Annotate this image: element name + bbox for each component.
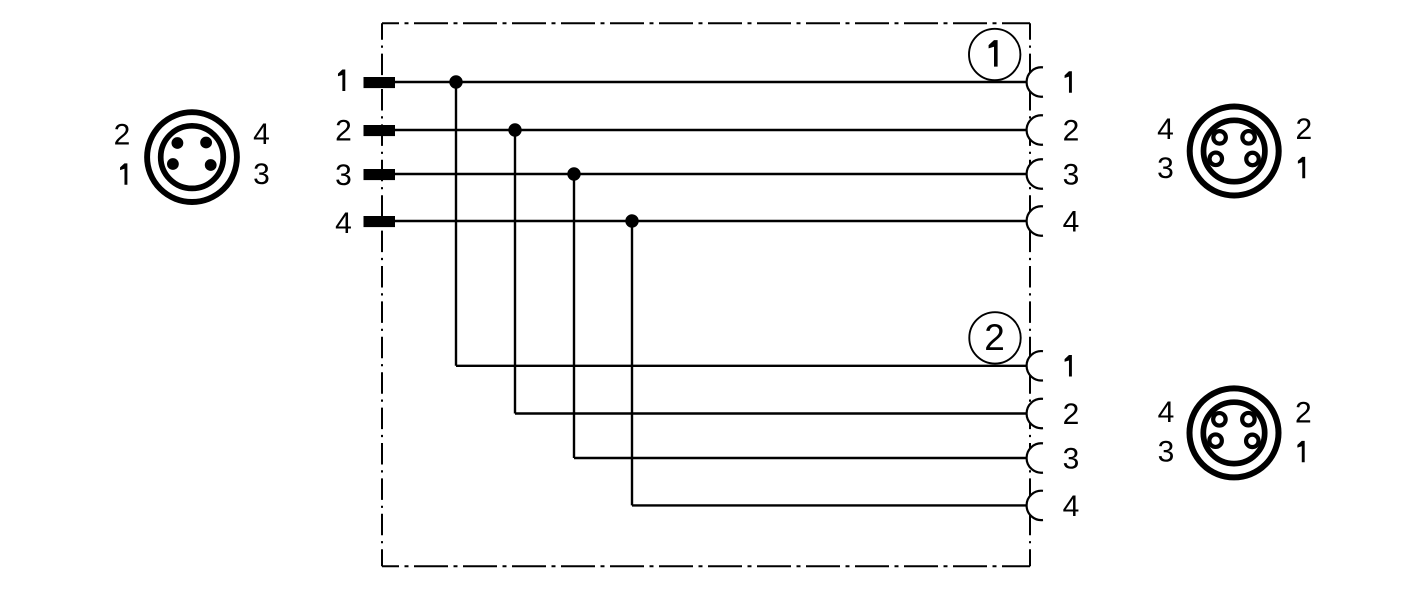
- male connector face view, inner collar: [161, 126, 224, 189]
- wire 1 horizontal (terminal 1 to socket 1-1): [395, 81, 1027, 83]
- svg-text:4: 4: [253, 118, 270, 151]
- female connector 2 socket 2 (top-right ring): [1242, 413, 1255, 426]
- output port 1 circled number: [969, 29, 1020, 80]
- male connector pin label 1: [120, 163, 127, 184]
- terminal 3 (input pad): [364, 169, 396, 180]
- svg-text:2: 2: [335, 115, 352, 148]
- female connector 2 socket 1 (bottom-right ring): [1246, 435, 1259, 448]
- socket label 2-1: [1065, 355, 1072, 376]
- svg-text:3: 3: [1063, 159, 1080, 192]
- wire 4 horizontal (terminal 4 to socket 1-4): [395, 220, 1027, 222]
- female connector 2 face view, inner collar: [1203, 402, 1264, 463]
- female connector 1 socket 4 (top-left ring): [1213, 131, 1226, 144]
- enclosure border right edge (dash-dot): [1029, 23, 1031, 566]
- male connector pin 3 (bottom-right dot): [205, 159, 217, 171]
- svg-text:3: 3: [1158, 435, 1175, 468]
- wire 2 horizontal (terminal 2 to socket 1-2): [395, 129, 1027, 131]
- svg-text:2: 2: [1063, 115, 1080, 148]
- svg-text:3: 3: [1157, 152, 1174, 185]
- svg-text:2: 2: [1063, 398, 1080, 431]
- branch wire 2 vertical drop: [514, 130, 516, 414]
- female connector 2 socket 3 (bottom-left ring): [1209, 434, 1222, 447]
- junction dot wire 1: [449, 75, 462, 88]
- enclosure border bottom edge (dash-dot): [382, 565, 1030, 567]
- wire 3 horizontal (terminal 3 to socket 1-3): [395, 173, 1027, 175]
- female connector 1 socket 2 (top-right ring): [1242, 131, 1255, 144]
- junction dot wire 3: [567, 167, 580, 180]
- female connector 2 face view, outer shell: [1190, 388, 1279, 477]
- socket contact 1-4 arc: [1027, 206, 1043, 235]
- svg-text:4: 4: [1063, 490, 1080, 523]
- svg-text:4: 4: [1158, 396, 1175, 429]
- female connector 1 socket 3 (bottom-left ring): [1210, 153, 1223, 166]
- female connector 1 face view, outer shell: [1190, 107, 1279, 196]
- svg-text:4: 4: [1157, 113, 1174, 146]
- socket label 1-1: [1065, 71, 1072, 92]
- terminal 2 (input pad): [364, 125, 396, 136]
- svg-text:2: 2: [1295, 396, 1312, 429]
- branch wire 1 lower horizontal (to socket 2-1): [456, 365, 1027, 367]
- male connector face view, outer shell: [147, 112, 237, 202]
- junction dot wire 2: [508, 123, 521, 136]
- svg-text:4: 4: [1063, 206, 1080, 239]
- svg-text:2: 2: [114, 119, 131, 152]
- branch wire 2 lower horizontal (to socket 2-2): [515, 412, 1027, 414]
- male connector pin 4 (top-right dot): [200, 137, 212, 149]
- male connector pin 1 (bottom-left dot): [167, 158, 179, 170]
- enclosure border top edge (dash-dot): [382, 22, 1030, 24]
- socket contact 1-2 arc: [1027, 115, 1043, 144]
- socket contact 2-1 arc: [1027, 351, 1043, 380]
- terminal 4 (input pad): [364, 216, 396, 227]
- terminal label 1: [338, 70, 345, 91]
- branch wire 1 vertical drop: [455, 82, 457, 366]
- branch wire 3 vertical drop: [573, 174, 575, 458]
- svg-text:2: 2: [984, 317, 1005, 358]
- female connector 2 socket 4 (top-left ring): [1213, 413, 1226, 426]
- socket contact 2-4 arc: [1027, 491, 1043, 520]
- female connector 1 face view, inner collar: [1204, 120, 1265, 181]
- terminal 1 (input pad): [364, 77, 396, 88]
- female connector 1 socket 1 (bottom-right ring): [1246, 153, 1259, 166]
- junction dot wire 4: [625, 214, 638, 227]
- output port 2 circled number: [969, 312, 1020, 363]
- svg-text:2: 2: [1295, 113, 1312, 146]
- branch wire 4 lower horizontal (to socket 2-4): [632, 504, 1027, 506]
- socket contact 2-3 arc: [1027, 443, 1043, 472]
- branch wire 4 vertical drop: [631, 221, 633, 505]
- female connector 1 pin label 1: [1298, 157, 1305, 178]
- socket contact 1-3 arc: [1027, 159, 1043, 188]
- svg-text:4: 4: [335, 207, 352, 240]
- enclosure border left edge (dash-dot): [381, 23, 383, 566]
- socket contact 1-1 arc: [1027, 67, 1043, 96]
- socket contact 2-2 arc: [1027, 399, 1043, 428]
- branch wire 3 lower horizontal (to socket 2-3): [574, 457, 1027, 459]
- female connector 2 pin label 1: [1297, 441, 1304, 462]
- svg-text:3: 3: [1063, 443, 1080, 476]
- male connector pin 2 (top-left dot): [172, 137, 184, 149]
- svg-text:3: 3: [335, 159, 352, 192]
- svg-text:3: 3: [253, 158, 270, 191]
